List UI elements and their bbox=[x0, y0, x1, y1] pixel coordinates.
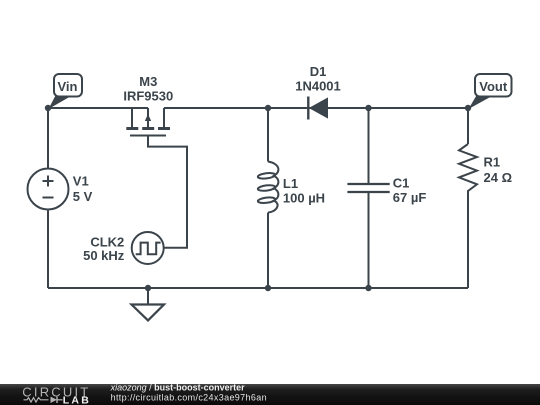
svg-text:xiaozong / bust-boost-converte: xiaozong / bust-boost-converter bbox=[110, 383, 246, 393]
svg-text:100 µH: 100 µH bbox=[283, 191, 325, 206]
node C1 bottom dot bbox=[365, 285, 371, 291]
svg-text:1N4001: 1N4001 bbox=[295, 78, 341, 93]
svg-text:D1: D1 bbox=[310, 64, 327, 79]
svg-text:http://circuitlab.com/c24x3ae9: http://circuitlab.com/c24x3ae97h6an bbox=[111, 392, 267, 402]
node Vout dot bbox=[465, 105, 471, 111]
capacitor C1 bbox=[347, 184, 389, 192]
wire top-left: Vin node to M3 bbox=[48, 107, 148, 109]
node ground dot bbox=[145, 285, 151, 291]
wire C1 lower bbox=[368, 192, 370, 288]
wire left rail upper: Vin node down to V1 bbox=[47, 108, 49, 169]
svg-text:50 kHz: 50 kHz bbox=[83, 248, 125, 263]
transistor M3 (PMOS) bbox=[126, 108, 170, 136]
svg-text:67 µF: 67 µF bbox=[393, 190, 427, 205]
svg-text:24 Ω: 24 Ω bbox=[484, 170, 513, 185]
wire ground stub bbox=[147, 288, 149, 305]
svg-text:IRF9530: IRF9530 bbox=[123, 88, 173, 103]
svg-text:Vout: Vout bbox=[479, 79, 508, 94]
wire bottom bus bbox=[48, 287, 468, 289]
label R1 value bbox=[484, 155, 513, 186]
label CLK2 value bbox=[83, 235, 125, 263]
resistor R1 bbox=[459, 144, 477, 193]
label V1 value bbox=[73, 174, 93, 204]
label D1 bbox=[295, 64, 341, 93]
flag Vin bbox=[49, 74, 83, 109]
wire left rail lower: V1 to bottom bus bbox=[47, 210, 49, 289]
ground bbox=[132, 305, 165, 321]
node L1 top dot bbox=[265, 105, 271, 111]
footer bar bbox=[0, 384, 540, 405]
inductor L1 bbox=[258, 162, 279, 213]
wire L1 lower bbox=[267, 213, 269, 289]
label M3 bbox=[123, 74, 173, 104]
node L1 bottom dot bbox=[265, 285, 271, 291]
wire R1 lower bbox=[467, 193, 469, 288]
svg-text:5 V: 5 V bbox=[73, 189, 93, 204]
voltage source V1 bbox=[28, 169, 69, 210]
footer title text bbox=[110, 383, 267, 403]
wire top-right: M3 drain to Vout node bbox=[164, 107, 468, 109]
svg-text:Vin: Vin bbox=[58, 79, 78, 94]
node Vin dot bbox=[45, 105, 51, 111]
wire R1 upper bbox=[467, 108, 469, 144]
diode D1 bbox=[308, 97, 328, 120]
label C1 value bbox=[393, 176, 427, 206]
logo CircuitLab bbox=[22, 384, 91, 405]
wire gate net: M3 gate to CLK2 bbox=[148, 136, 187, 248]
label L1 value bbox=[283, 176, 325, 206]
svg-text:L1: L1 bbox=[283, 176, 298, 191]
svg-text:V1: V1 bbox=[73, 174, 89, 189]
svg-text:M3: M3 bbox=[139, 74, 157, 89]
wire C1 upper bbox=[368, 108, 370, 184]
svg-text:R1: R1 bbox=[484, 155, 501, 170]
wire L1 upper bbox=[267, 108, 269, 162]
flag Vout bbox=[469, 74, 512, 109]
node C1 top dot bbox=[365, 105, 371, 111]
svg-text:C1: C1 bbox=[393, 176, 410, 191]
svg-text:LAB: LAB bbox=[63, 394, 91, 405]
clock source CLK2 bbox=[132, 232, 164, 264]
